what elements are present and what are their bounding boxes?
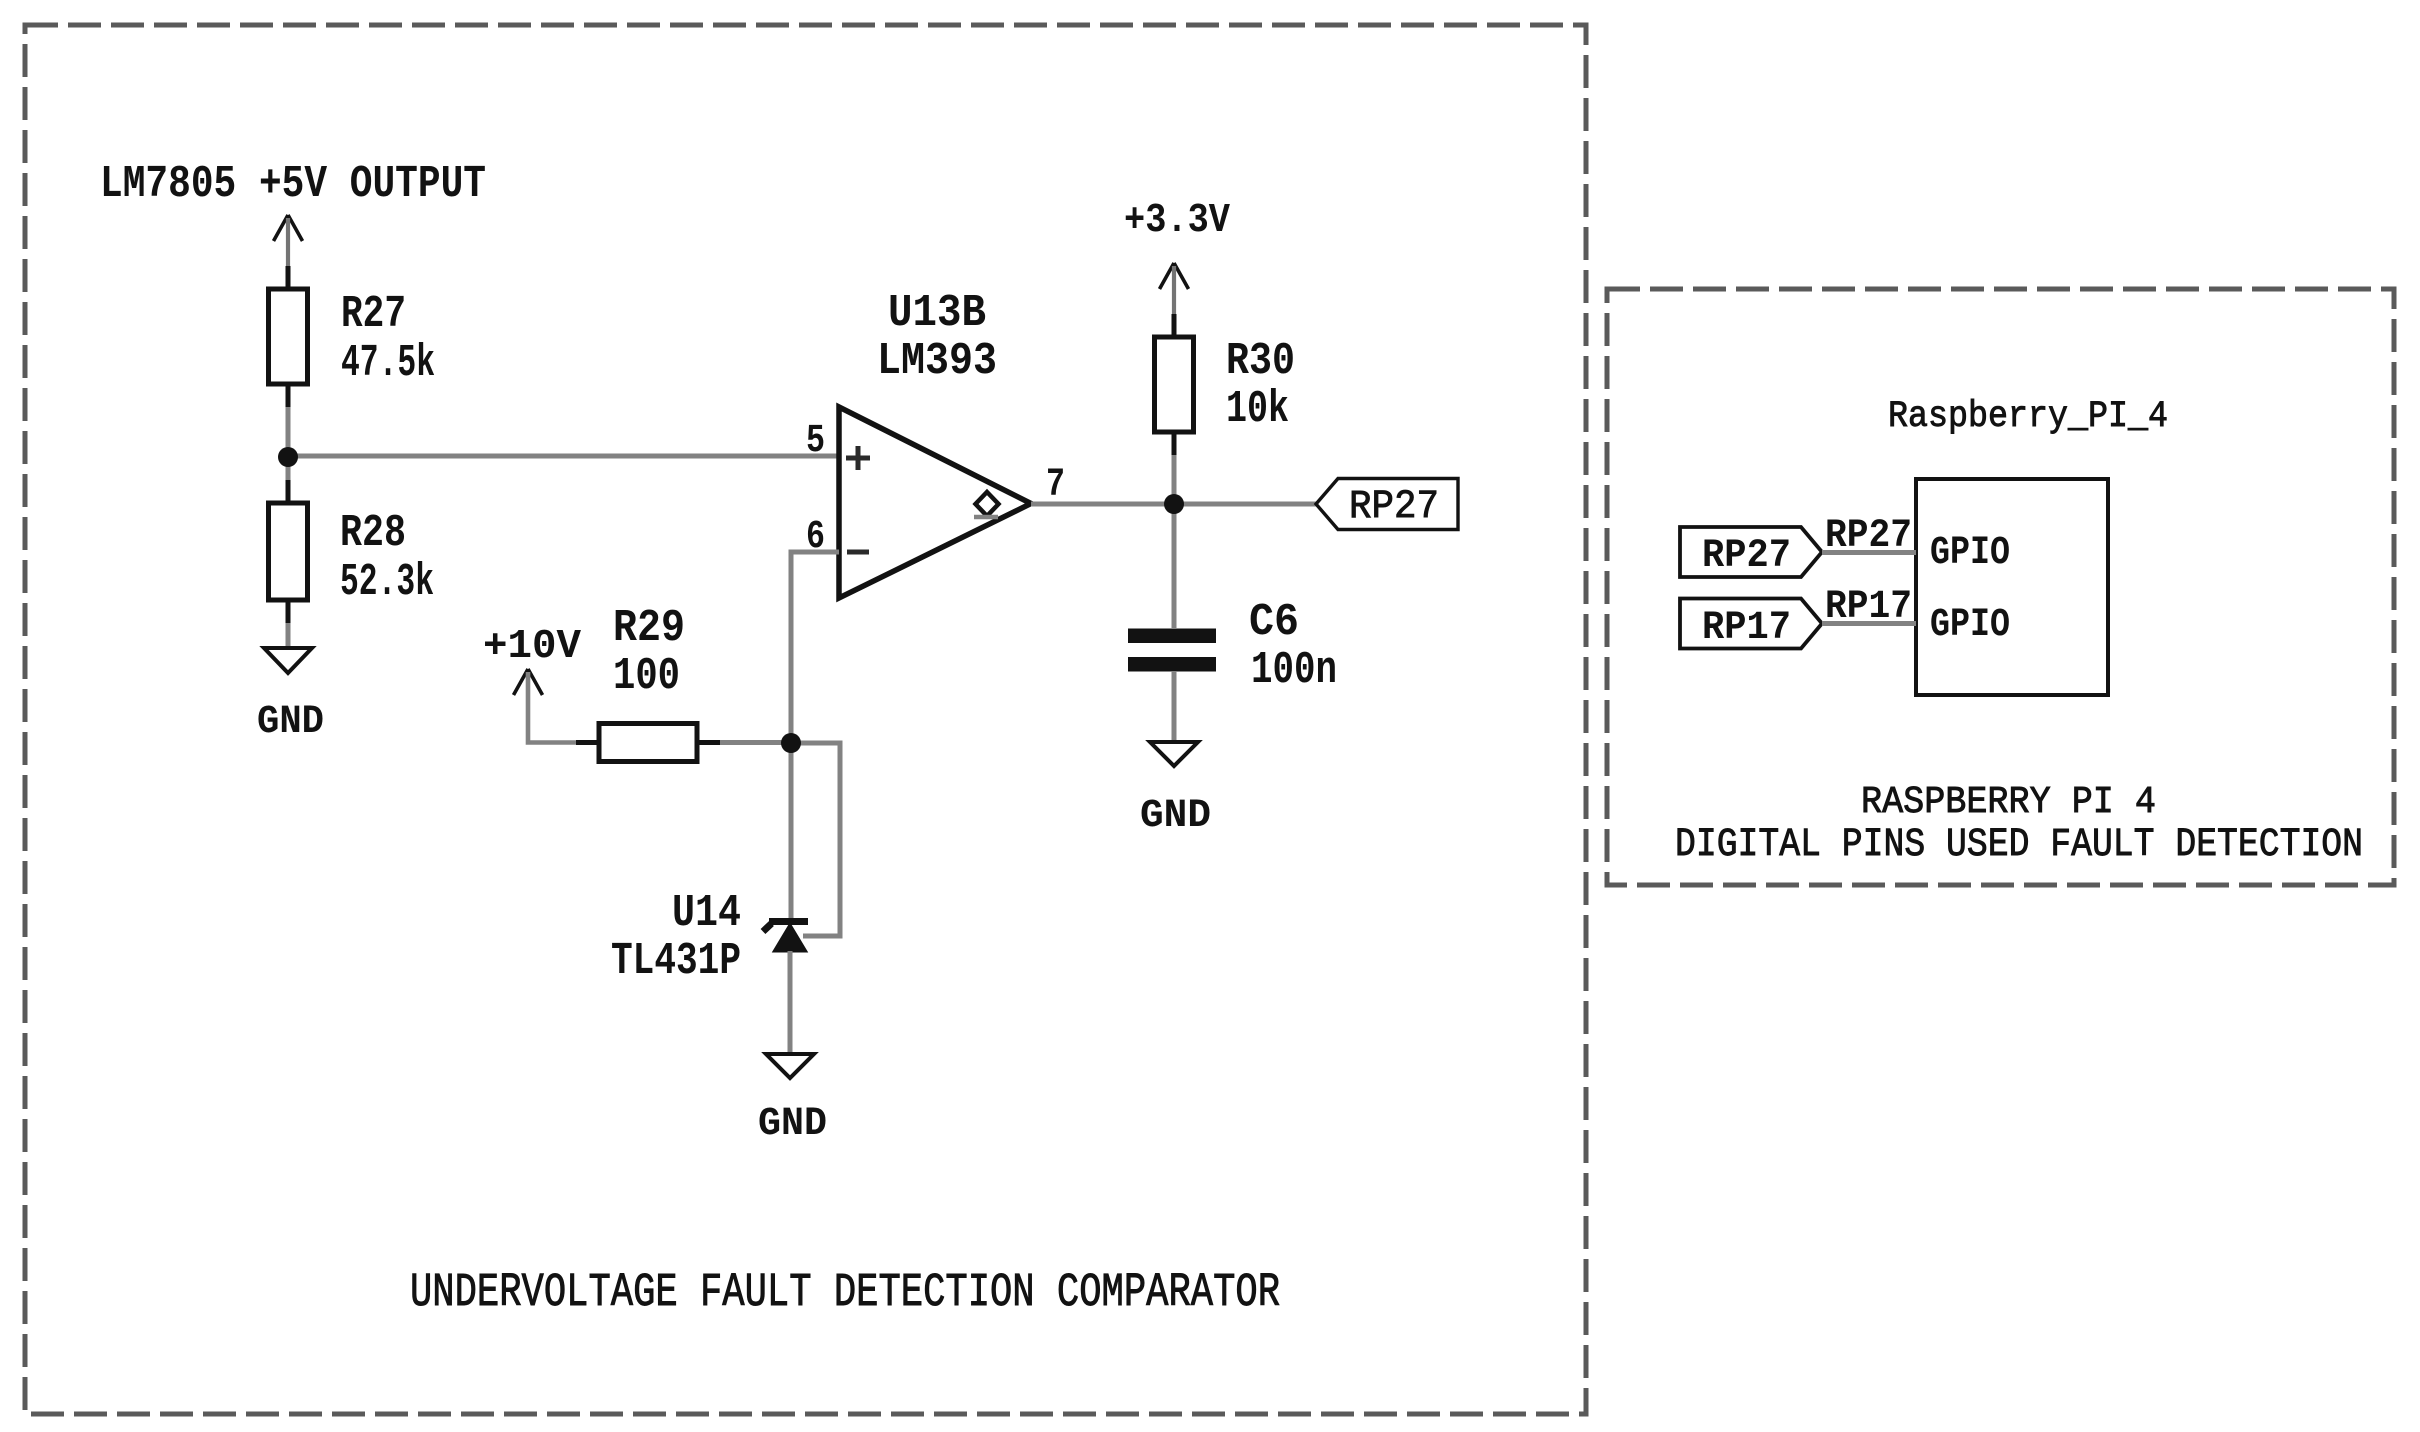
svg-text:10k: 10k <box>1226 384 1289 435</box>
wire +3.3V to R30 <box>1172 266 1176 337</box>
svg-text:100n: 100n <box>1251 645 1337 696</box>
resistor R29 <box>576 740 599 745</box>
svg-text:RP27: RP27 <box>1825 514 1912 559</box>
junction dot at R27/R28 node <box>278 447 298 467</box>
wire +5V stem to R27 <box>286 218 290 289</box>
power arrow +5V <box>274 215 303 241</box>
op-amp minus input mark <box>847 550 869 555</box>
svg-text:LM7805 +5V OUTPUT: LM7805 +5V OUTPUT <box>100 159 486 210</box>
resistor R30 <box>1172 314 1177 337</box>
svg-text:RP27: RP27 <box>1349 485 1439 530</box>
net flag RP17 input <box>1680 599 1822 649</box>
wire op-amp output pin 7 to RP27 flag <box>1031 502 1316 507</box>
wire U14 anode to ground <box>788 951 793 1054</box>
left dashed border box: undervoltage comparator sheet <box>25 25 1586 1414</box>
resistor R28 <box>286 480 291 503</box>
svg-text:UNDERVOLTAGE FAULT DETECTION C: UNDERVOLTAGE FAULT DETECTION COMPARATOR <box>410 1267 1280 1320</box>
svg-text:GPIO: GPIO <box>1930 531 2010 576</box>
wire R30 to output node and down to C6 <box>1172 432 1177 628</box>
svg-text:R28: R28 <box>340 508 406 559</box>
op-amp plus input mark <box>846 446 870 470</box>
svg-text:R29: R29 <box>613 603 685 654</box>
resistor R27 <box>286 266 291 289</box>
wire node down to R28 <box>286 457 291 503</box>
raspberry pi GPIO box U-RPI <box>1916 479 2108 695</box>
svg-text:GND: GND <box>758 1102 827 1147</box>
svg-text:52.3k: 52.3k <box>340 557 434 608</box>
wire R28 to ground <box>286 600 291 648</box>
wire RP17 flag to GPIO pin <box>1822 621 1916 626</box>
net flag RP27 input <box>1680 527 1822 577</box>
svg-text:RP17: RP17 <box>1702 606 1791 651</box>
power arrow +10V <box>514 669 543 695</box>
junction dot at output node <box>1164 494 1184 514</box>
svg-text:GND: GND <box>257 700 324 745</box>
svg-text:C6: C6 <box>1249 597 1299 648</box>
svg-text:+3.3V: +3.3V <box>1124 198 1230 244</box>
wire node to op-amp pin 5 <box>288 454 839 459</box>
svg-text:U14: U14 <box>672 888 741 939</box>
power arrow +3.3V <box>1160 263 1189 289</box>
wire RP27 flag to GPIO pin <box>1822 550 1916 555</box>
ground symbol below R28 <box>264 648 312 673</box>
junction dot at node B <box>781 733 801 753</box>
svg-text:TL431P: TL431P <box>611 936 741 987</box>
svg-text:RP27: RP27 <box>1702 534 1791 579</box>
svg-text:Raspberry_PI_4: Raspberry_PI_4 <box>1888 396 2168 438</box>
wire node B to U14 ref pin loop <box>791 743 840 936</box>
capacitor C6 <box>1128 629 1216 644</box>
svg-text:GND: GND <box>1140 794 1211 839</box>
wire C6 to ground <box>1172 671 1177 742</box>
wire R29 to node B <box>697 740 791 745</box>
ground symbol below C6 <box>1150 742 1198 766</box>
svg-text:U13B: U13B <box>888 288 986 339</box>
net flag RP27 on output <box>1316 479 1458 530</box>
svg-text:7: 7 <box>1046 463 1065 508</box>
svg-text:100: 100 <box>613 651 680 702</box>
svg-text:+10V: +10V <box>483 624 581 670</box>
wire R27 to node <box>286 384 291 457</box>
svg-text:RASPBERRY PI 4: RASPBERRY PI 4 <box>1861 781 2156 824</box>
wire op-amp pin 6 down to node B <box>791 552 839 743</box>
svg-text:R27: R27 <box>341 289 406 340</box>
svg-text:RP17: RP17 <box>1825 585 1912 630</box>
op-amp U13B LM393 <box>839 407 1031 598</box>
svg-text:5: 5 <box>806 419 825 464</box>
svg-text:LM393: LM393 <box>877 336 997 387</box>
svg-text:R30: R30 <box>1226 336 1295 387</box>
svg-text:GPIO: GPIO <box>1930 603 2010 648</box>
ground symbol below U14 <box>766 1054 814 1078</box>
svg-text:47.5k: 47.5k <box>341 338 435 389</box>
shunt regulator U14 TL431P <box>763 922 808 932</box>
svg-text:DIGITAL PINS USED FAULT DETECT: DIGITAL PINS USED FAULT DETECTION <box>1675 823 2363 868</box>
wire node B down to U14 cathode <box>789 743 794 918</box>
wire +10V to R29 <box>528 672 599 743</box>
open collector output symbol <box>976 492 999 516</box>
right dashed border box: raspberry pi sheet <box>1607 289 2394 885</box>
